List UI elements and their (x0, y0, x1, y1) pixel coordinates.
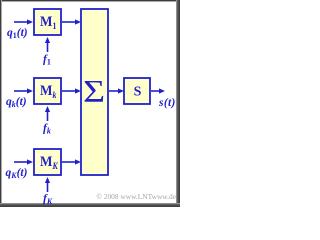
svg-text:s(t): s(t) (158, 97, 176, 109)
wire q1 input arrow (14, 19, 33, 24)
wire fK up arrow (45, 177, 50, 192)
summation block Σ (81, 9, 108, 175)
wire S output arrow (151, 88, 165, 93)
block S (124, 78, 150, 104)
multiplier M1 (34, 9, 61, 35)
svg-text:qk(t): qk(t) (6, 96, 27, 109)
svg-text:Σ: Σ (83, 74, 105, 110)
wire f1 up arrow (45, 37, 50, 52)
wire sum to S (109, 88, 124, 93)
multiplier Mk (34, 78, 61, 104)
multiplier MK (34, 149, 61, 175)
wire M1 to sum (62, 19, 81, 24)
wire Mk to sum (62, 88, 81, 93)
svg-text:q1(t): q1(t) (7, 27, 28, 40)
wire qk input arrow (14, 88, 33, 93)
wire MK to sum (62, 159, 81, 164)
svg-text:S: S (134, 85, 142, 100)
wire fk up arrow (45, 106, 50, 121)
svg-text:qK(t): qK(t) (6, 167, 28, 180)
wire qK input arrow (14, 159, 33, 164)
svg-text:© 2008 www.LNTwww.de: © 2008 www.LNTwww.de (96, 192, 176, 201)
